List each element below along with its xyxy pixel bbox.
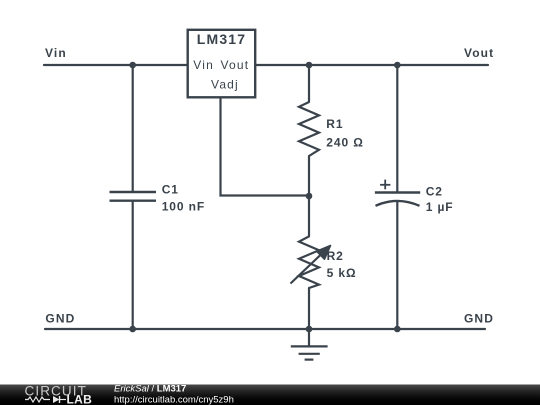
CircuitLab logo resistor squiggle: [25, 397, 50, 402]
svg-text:LM317: LM317: [197, 31, 247, 47]
CircuitLab logo diode: [53, 396, 66, 403]
node junction bottom C2: [394, 326, 401, 333]
ground: [291, 329, 328, 360]
svg-text:Vin: Vin: [193, 58, 214, 72]
C2 plus sign: [380, 180, 390, 190]
node junction top C1: [129, 62, 136, 69]
svg-text:Vin: Vin: [45, 46, 67, 60]
wire top rail right (LM317 to Vout): [255, 64, 488, 66]
resistor R1 240 ohm: [299, 102, 319, 156]
wire R2 top: [308, 196, 310, 236]
wire C1 branch bottom: [132, 201, 134, 329]
wire R2 bottom: [308, 288, 310, 329]
svg-text:R2: R2: [327, 249, 344, 263]
svg-text:5 kΩ: 5 kΩ: [327, 266, 357, 280]
footer bar: [0, 385, 540, 405]
wire C1 branch top: [132, 65, 134, 192]
svg-text:1 µF: 1 µF: [426, 200, 454, 214]
svg-text:240 Ω: 240 Ω: [326, 136, 363, 150]
wire C2 branch bottom: [396, 202, 398, 330]
svg-text:Vout: Vout: [221, 58, 250, 72]
resistor R2 5k potentiometer: [299, 236, 319, 288]
node junction bottom C1: [129, 326, 136, 333]
svg-text:100 nF: 100 nF: [162, 200, 205, 214]
svg-text:C1: C1: [162, 182, 179, 196]
svg-text:http://circuitlab.com/cny5z9h: http://circuitlab.com/cny5z9h: [114, 394, 234, 405]
node junction bottom R2: [306, 326, 313, 333]
R2 wiper arrow: [291, 246, 331, 284]
svg-text:GND: GND: [45, 311, 75, 325]
node junction top R1: [306, 62, 313, 69]
wire Vadj from LM317 to R1/R2 node: [221, 97, 310, 195]
capacitor C1: [110, 192, 157, 201]
capacitor C2 polarized: [375, 193, 420, 206]
svg-text:C2: C2: [426, 185, 443, 199]
svg-text:ErickSal / LM317: ErickSal / LM317: [114, 383, 186, 394]
node junction R1/R2/Vadj: [306, 193, 313, 200]
wire top rail left (Vin to LM317): [44, 64, 188, 66]
node junction top C2: [394, 62, 401, 69]
svg-text:Vout: Vout: [464, 46, 494, 60]
svg-text:LAB: LAB: [67, 392, 93, 405]
svg-text:Vadj: Vadj: [211, 78, 239, 92]
svg-text:R1: R1: [326, 117, 343, 131]
wire R1 to node A: [308, 156, 310, 196]
wire C2 branch top: [396, 65, 398, 192]
svg-text:GND: GND: [464, 311, 494, 325]
op-amp U1 LM317 box: [188, 30, 256, 98]
wire bottom GND rail: [45, 328, 485, 330]
wire R1 branch top: [308, 65, 310, 102]
